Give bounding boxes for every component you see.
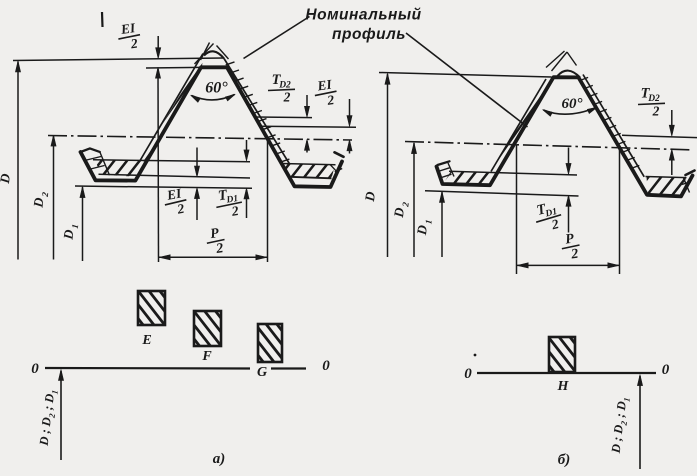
dimension line D1 with arrow: [82, 187, 84, 261]
svg-text:60°: 60°: [562, 96, 583, 112]
right flank limit line (ladder band outer edge): [224, 59, 290, 164]
label D (right figure): [362, 190, 378, 203]
left root stub inner line: [100, 152, 110, 175]
svg-text:0: 0: [464, 366, 472, 382]
svg-text:EI: EI: [315, 77, 333, 94]
svg-text:D: D: [414, 224, 430, 237]
svg-text:D2: D2: [647, 94, 660, 104]
tolerance field F: [194, 311, 221, 346]
zero line (right diagram): [477, 372, 656, 374]
right root band top line (right figure): [646, 177, 687, 178]
dimension TD1/2 at root: [213, 185, 244, 221]
label D2 (right figure): [391, 200, 411, 219]
60 degree angle arc with arrows: [192, 95, 235, 100]
svg-text:0: 0: [662, 362, 670, 378]
left flank limit line (right figure): [491, 79, 546, 172]
dimension line D2 with arrow (right figure): [413, 143, 415, 257]
root tolerance band top line / TD1 limit line: [93, 160, 250, 162]
left flank tolerance zone hatch: [73, 11, 271, 207]
nominal thread profile (right figure) - thick outline: [437, 77, 693, 196]
dimension line D with arrow (right figure): [387, 74, 389, 257]
P/2 dimension line with arrows (right figure): [517, 264, 620, 266]
leader line to left profile: [244, 17, 310, 59]
svg-text:P: P: [564, 232, 575, 248]
svg-text:2: 2: [325, 92, 335, 108]
dimension TD2/2 upper bound line: [256, 116, 312, 119]
flank extension stubs above crest: [195, 44, 214, 65]
rounded crest arc (right figure): [558, 71, 581, 78]
svg-text:F: F: [201, 349, 212, 364]
right flank ladder band rungs: [226, 62, 235, 65]
label D1 (right figure): [414, 218, 434, 237]
svg-text:D: D: [391, 206, 407, 219]
right root tolerance band bottom line: [289, 177, 331, 179]
apex stubs (right figure): [546, 51, 565, 68]
diameter arrow D D2 D1 (left diagram): [60, 371, 62, 460]
label D1: [60, 223, 80, 242]
svg-text:2: 2: [230, 203, 240, 219]
svg-text:D: D: [30, 196, 46, 209]
dimension line D with arrow: [17, 62, 19, 260]
right root stub cap (right figure): [686, 171, 695, 176]
svg-text:2: 2: [175, 201, 185, 217]
TD2/2 dimension arrows (right figure): [671, 110, 673, 134]
svg-text:2: 2: [283, 90, 291, 105]
label D2: [30, 190, 50, 209]
rounded crest arc of limit profile: [204, 51, 224, 58]
svg-text:2: 2: [40, 191, 51, 198]
svg-text:E: E: [141, 333, 151, 348]
pitch diameter line (right figure, dash-dot): [405, 142, 690, 150]
svg-text:2: 2: [652, 104, 660, 119]
svg-text:профиль: профиль: [332, 26, 406, 43]
svg-text:0: 0: [31, 361, 39, 377]
dimension EI/2 right of apex: [313, 76, 339, 109]
dimension P/2 (right figure): [560, 231, 582, 264]
label D: [0, 172, 13, 185]
svg-text:2: 2: [214, 241, 224, 257]
P/2 dimension line with arrows: [159, 256, 268, 258]
svg-text:2: 2: [549, 216, 560, 232]
EI/2 crest dimension line with arrows / P2 extension: [157, 36, 159, 56]
svg-text:0: 0: [322, 358, 330, 374]
svg-text:2: 2: [400, 201, 411, 208]
right root stub inner line: [334, 164, 342, 178]
dimension line D1 with arrow (right figure): [441, 192, 443, 257]
right flank limit line (ladder outer, right figure): [583, 75, 644, 177]
tolerance field G: [258, 324, 282, 362]
root tolerance band bottom line: [99, 174, 251, 178]
nominal minor diameter line (right figure): [425, 191, 579, 196]
tolerance field H: [549, 337, 575, 372]
svg-text:Номинальный: Номинальный: [305, 7, 421, 24]
TD2/2 dimension arrows: [306, 95, 308, 115]
right root tolerance zone hatch: [255, 117, 364, 224]
dimension TD1/2 (right figure): [532, 198, 565, 236]
svg-text:H: H: [557, 379, 570, 394]
extension line right flank at pitch: [267, 140, 269, 263]
left flank tolerance zone hatch (right figure): [426, 30, 618, 219]
TD1/2 dimension arrows (right figure): [568, 148, 570, 172]
svg-text:60°: 60°: [205, 80, 228, 97]
svg-text:2: 2: [569, 247, 579, 263]
svg-text:D: D: [362, 190, 378, 203]
left root stub inner line (right figure): [448, 163, 454, 177]
60 degree angle arc (right figure): [544, 108, 597, 115]
svg-text:EI: EI: [119, 20, 137, 37]
zero line (left diagram): [45, 367, 250, 370]
svg-text:б): б): [558, 452, 570, 468]
svg-text:P: P: [209, 226, 220, 242]
right root stub cap (left figure): [335, 152, 344, 157]
speck: [474, 354, 477, 357]
svg-text:D ; D2 ; D1: D ; D2 ; D1: [37, 389, 60, 448]
tolerance field E: [138, 291, 165, 325]
left root stub cap (left figure): [81, 148, 100, 152]
TD2/2 bound line (right figure): [622, 135, 697, 137]
nominal minor diameter D1 line: [75, 186, 252, 188]
left root stub rungs: [85, 157, 102, 161]
left root band top line / TD1 limit (right figure): [449, 171, 577, 175]
svg-text:1: 1: [423, 219, 433, 225]
P/2 extension lines (right figure): [516, 145, 518, 275]
nominal crest extension line: [146, 66, 201, 69]
svg-text:D: D: [60, 228, 76, 241]
svg-text:а): а): [213, 451, 226, 467]
dimension line D2 with arrow: [53, 136, 55, 260]
label D;D2;D1 (left diagram): [37, 389, 60, 448]
svg-text:D: D: [0, 172, 13, 185]
right root tolerance zone hatch (right figure): [615, 137, 697, 237]
right root tolerance band top line: [282, 164, 336, 165]
dimension EI/2 at root: [162, 185, 189, 219]
right flank ladder rungs (right figure): [580, 77, 588, 80]
right root stub inner line (right figure): [684, 178, 690, 193]
left root stub cap (right figure): [437, 161, 450, 167]
diameter arrow D D2 D1 (right diagram): [639, 376, 641, 469]
label D;D2;D1 (right diagram): [609, 396, 632, 455]
EI/2 right dimension arrows: [349, 99, 351, 124]
crest limit line / D extension line: [13, 58, 224, 61]
nominal thread profile (left figure) - thick outline: [81, 67, 343, 187]
left root tolerance zone hatch (right figure): [416, 124, 526, 233]
dimension P/2 label: [205, 225, 227, 258]
svg-text:G: G: [257, 365, 267, 380]
svg-text:1: 1: [70, 224, 80, 230]
EI/2 right bound line: [261, 126, 356, 127]
pitch diameter line D2 (dash-dot): [48, 136, 352, 141]
dimension EI/2 at crest: [116, 20, 142, 53]
svg-text:2: 2: [129, 35, 139, 51]
left flank limit line: [140, 54, 204, 162]
left root tolerance zone hatch: [67, 115, 176, 223]
stray mark: [101, 12, 104, 27]
leader line to right profile: [406, 33, 528, 127]
major diameter D extension line (right figure): [379, 73, 552, 78]
svg-text:D ; D2 ; D1: D ; D2 ; D1: [609, 396, 632, 455]
